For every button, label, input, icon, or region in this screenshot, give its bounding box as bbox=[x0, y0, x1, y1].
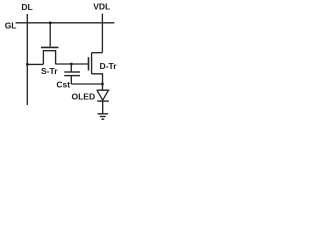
junction Cst tap bbox=[70, 63, 72, 65]
junction GL to S-Tr gate bbox=[49, 22, 51, 24]
diode OLED cathode bar bbox=[97, 100, 109, 102]
capacitor Cst bottom lead bbox=[70, 76, 72, 84]
transistor D-Tr channel bbox=[91, 53, 93, 75]
svg-text:GL: GL bbox=[5, 21, 17, 31]
junction OLED anode node bbox=[101, 83, 103, 85]
capacitor Cst top lead bbox=[70, 64, 72, 72]
capacitor Cst bottom plate bbox=[64, 75, 80, 77]
wire OLED cathode lead bbox=[102, 101, 104, 113]
capacitor Cst top plate bbox=[64, 71, 80, 73]
svg-text:D-Tr: D-Tr bbox=[100, 61, 118, 71]
svg-text:S-Tr: S-Tr bbox=[41, 66, 58, 76]
diode OLED anode bar bbox=[97, 89, 110, 91]
junction DL branch bbox=[26, 63, 28, 65]
svg-text:DL: DL bbox=[21, 2, 32, 12]
transistor S-Tr gate bar bbox=[41, 46, 59, 48]
svg-text:OLED: OLED bbox=[71, 92, 95, 102]
ground bar 1 bbox=[98, 113, 108, 115]
wire D-Tr source down to OLED bbox=[92, 74, 103, 90]
svg-text:Cst: Cst bbox=[56, 79, 70, 89]
wire Cst bottom to OLED anode node bbox=[71, 83, 102, 85]
wire S-Tr gate lead from GL bbox=[49, 23, 51, 47]
wire DL data line vertical bbox=[26, 14, 28, 105]
wire GL gate line horizontal bbox=[16, 22, 115, 24]
transistor S-Tr channel bbox=[43, 51, 55, 64]
transistor D-Tr gate bar bbox=[88, 57, 90, 70]
wire DL branch to S-Tr source bbox=[27, 63, 43, 65]
wire D-Tr drain to VDL bbox=[92, 52, 103, 54]
wire S-Tr drain to D-Tr gate bbox=[56, 63, 89, 65]
diode OLED triangle bbox=[97, 91, 108, 101]
ground bar 3 bbox=[101, 118, 104, 120]
ground bar 2 bbox=[100, 116, 106, 118]
svg-text:VDL: VDL bbox=[93, 2, 110, 12]
wire VDL supply line vertical bbox=[101, 14, 103, 53]
